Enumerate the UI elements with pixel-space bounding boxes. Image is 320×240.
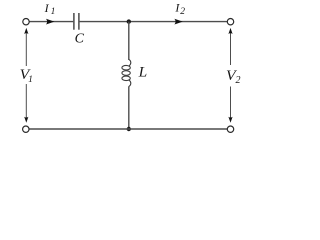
- wire top-right: from capacitor to terminal: [80, 21, 228, 23]
- svg-text:I: I: [44, 1, 50, 15]
- voltage arrow V2 segments: [230, 33, 232, 118]
- terminal bottom-right: [227, 126, 233, 132]
- node bottom junction dot: [127, 127, 131, 131]
- V1 arrowhead up: [24, 28, 28, 34]
- terminal bottom-left: [23, 126, 29, 132]
- svg-text:1: 1: [28, 75, 33, 85]
- V1 arrowhead down: [24, 117, 28, 123]
- wire middle branch lower: [128, 86, 130, 129]
- svg-text:1: 1: [51, 7, 56, 17]
- terminal top-right: [227, 19, 233, 25]
- arrow I1 on top wire: [46, 19, 54, 25]
- capacitor C1 plates: [74, 13, 79, 30]
- voltage arrow V1 upper segment: [25, 33, 27, 118]
- wire top-left: from terminal to capacitor: [29, 21, 73, 23]
- V2 arrowhead up: [228, 28, 232, 34]
- svg-text:L: L: [138, 65, 148, 81]
- terminal top-left: [23, 19, 29, 25]
- V2 arrowhead down: [228, 117, 232, 123]
- node top junction dot: [127, 19, 131, 23]
- wire middle branch upper: [128, 22, 130, 60]
- svg-text:2: 2: [236, 75, 241, 86]
- wire bottom: [29, 128, 227, 130]
- arrow I2 on top wire: [174, 19, 182, 25]
- svg-text:2: 2: [180, 7, 185, 17]
- inductor L1 coil: [122, 59, 131, 86]
- svg-text:C: C: [75, 32, 85, 47]
